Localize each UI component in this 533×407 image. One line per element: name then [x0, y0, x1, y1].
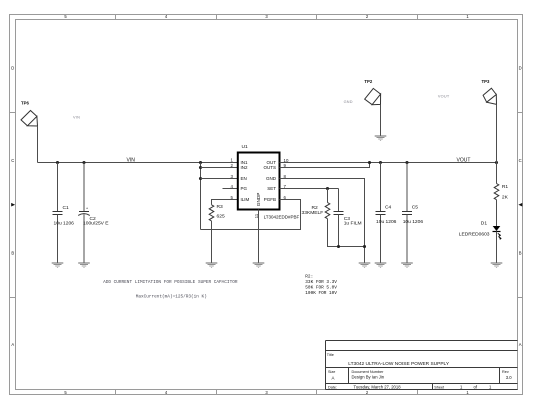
- ground below R3: [206, 263, 218, 268]
- svg-text:Document Number: Document Number: [352, 370, 385, 374]
- svg-text:100K FOR 10V: 100K FOR 10V: [305, 291, 337, 296]
- frame zone ticks bottom: [116, 390, 418, 395]
- svg-text:33K FOR 3.3V: 33K FOR 3.3V: [305, 280, 337, 285]
- wire R1 to D1: [496, 200, 498, 226]
- ground below C4: [375, 263, 387, 268]
- svg-text:A: A: [332, 375, 335, 380]
- svg-text:MaxCurrent(mA)=125/R3(in K): MaxCurrent(mA)=125/R3(in K): [136, 294, 207, 299]
- wire EN: [201, 178, 239, 180]
- wire VIN vertical branch: [200, 163, 202, 230]
- junction OUT/C4: [379, 161, 382, 164]
- test point TP6: [21, 101, 38, 127]
- svg-text:VIN: VIN: [73, 116, 80, 120]
- svg-text:R2:: R2:: [305, 274, 313, 279]
- wire PG stub nc: [223, 188, 239, 190]
- capacitor C5: [402, 163, 423, 263]
- svg-text:VOUT: VOUT: [457, 157, 471, 163]
- svg-text:PG: PG: [241, 186, 248, 191]
- svg-text:Date:: Date:: [328, 386, 337, 390]
- svg-text:Size: Size: [328, 370, 335, 374]
- wire GND pin down: [280, 179, 365, 263]
- svg-text:GND: GND: [344, 100, 353, 104]
- svg-text:D1: D1: [481, 220, 488, 226]
- svg-text:OUTS: OUTS: [263, 165, 276, 170]
- svg-text:3.0: 3.0: [506, 375, 512, 380]
- svg-text:R3: R3: [217, 204, 224, 210]
- svg-text:C4: C4: [385, 205, 392, 211]
- ground below TP2: [375, 136, 387, 141]
- capacitor C4: [376, 163, 397, 263]
- wire IN2: [201, 167, 239, 169]
- svg-text:D: D: [11, 65, 14, 70]
- svg-text:10u 1206: 10u 1206: [54, 220, 75, 226]
- ground below pin 11: [253, 263, 265, 268]
- svg-text:TP3: TP3: [482, 79, 490, 84]
- junction OUTS/OUT: [368, 161, 371, 164]
- resistor R3: [209, 204, 225, 221]
- frame zone numbers bottom: [64, 390, 469, 395]
- svg-text:A: A: [519, 342, 522, 347]
- svg-text:2K: 2K: [502, 195, 509, 201]
- svg-text:100u/25V E: 100u/25V E: [83, 221, 109, 227]
- wire D1 to ground: [496, 232, 498, 263]
- wire VIN rail: [38, 162, 239, 164]
- svg-text:TP6: TP6: [21, 101, 29, 106]
- ground below C2: [78, 263, 90, 268]
- svg-text:B: B: [11, 250, 14, 255]
- wire SET net: [280, 188, 339, 190]
- IC U1 LT3042EDD#PBF body: [238, 153, 280, 210]
- svg-text:A: A: [11, 342, 14, 347]
- svg-text:LEDRED0603: LEDRED0603: [459, 231, 490, 237]
- frame zone ticks right: [518, 113, 523, 298]
- wire TP3 to VOUT rail: [496, 104, 498, 162]
- frame zone ticks top: [116, 15, 418, 20]
- frame zone numbers top: [64, 14, 469, 19]
- svg-text:LT3042EDD#PBF: LT3042EDD#PBF: [264, 214, 300, 219]
- junction C3 bottom: [337, 245, 340, 248]
- junction GND net bottom: [363, 245, 366, 248]
- svg-text:PGFB: PGFB: [264, 197, 276, 202]
- pin 2 IN2: [231, 163, 248, 170]
- wire TP2 to ground: [380, 104, 382, 135]
- svg-text:TP2: TP2: [364, 79, 372, 84]
- title block text: [327, 353, 512, 389]
- svg-text:10u 1206: 10u 1206: [403, 219, 424, 225]
- svg-text:LT3042 ULTRA-LOW NOISE POWER S: LT3042 ULTRA-LOW NOISE POWER SUPPLY: [348, 361, 450, 367]
- svg-text:R1: R1: [502, 184, 509, 190]
- pin 3 EN: [231, 174, 247, 181]
- svg-text:Sheet: Sheet: [434, 386, 445, 390]
- pin 9 OUTS: [263, 163, 286, 170]
- pin 7 SET: [267, 184, 286, 191]
- pin 8 GND: [266, 174, 287, 181]
- wire TP6 down to VIN rail: [37, 126, 39, 163]
- svg-text:Design By Ian Jin: Design By Ian Jin: [352, 375, 385, 380]
- svg-text:GNDP: GNDP: [256, 193, 261, 207]
- capacitor C3: [334, 189, 362, 247]
- resistor R2: [302, 189, 365, 247]
- wire ILIM to R3: [212, 200, 239, 205]
- svg-text:VOUT: VOUT: [438, 94, 450, 98]
- pin 4 PG: [231, 184, 248, 191]
- wire R3 to ground: [211, 221, 213, 263]
- svg-text:625: 625: [217, 214, 225, 220]
- svg-text:B: B: [519, 250, 522, 255]
- wire OUTS join: [280, 163, 370, 168]
- wire OUT rail to VOUT: [280, 162, 497, 164]
- junction SET/R2: [326, 187, 329, 190]
- junction VIN/C1: [56, 161, 59, 164]
- frame zone ticks left: [10, 113, 16, 298]
- capacitor C1: [53, 163, 75, 263]
- ground below D1: [491, 263, 503, 268]
- svg-text:Rev: Rev: [502, 370, 509, 374]
- svg-text:IN2: IN2: [241, 165, 249, 170]
- ground GND net: [359, 263, 371, 268]
- junction EN: [199, 177, 202, 180]
- ground below C5: [401, 263, 413, 268]
- ground below C1: [52, 263, 64, 268]
- svg-text:1u FILM: 1u FILM: [344, 221, 362, 227]
- test point TP3: [482, 79, 497, 104]
- svg-text:Tuesday, March 27, 2018: Tuesday, March 27, 2018: [354, 385, 402, 390]
- svg-text:Title: Title: [327, 353, 334, 357]
- LED D1: [459, 220, 502, 240]
- svg-text:C5: C5: [412, 205, 419, 211]
- svg-text:SET: SET: [267, 186, 276, 191]
- pin 10 OUT: [267, 158, 289, 165]
- junction VIN vertical: [199, 161, 202, 164]
- svg-text:50K FOR 5.0V: 50K FOR 5.0V: [305, 286, 337, 291]
- svg-text:33KMELF: 33KMELF: [302, 210, 324, 216]
- svg-text:C: C: [11, 158, 14, 163]
- junction OUT/C5: [405, 161, 408, 164]
- svg-text:C1: C1: [63, 205, 70, 211]
- svg-text:VIN: VIN: [127, 157, 136, 163]
- frame zone letters left: [11, 65, 14, 347]
- title block lines: [326, 341, 518, 390]
- pin 6 PGFB: [264, 195, 287, 202]
- pin 11 GNDP rotated labels: [254, 193, 261, 219]
- resistor R1: [494, 184, 508, 201]
- pin 5 ILIM: [231, 195, 250, 202]
- junction VOUT/R1/TP3: [495, 161, 498, 164]
- svg-text:10u 1206: 10u 1206: [376, 219, 397, 225]
- svg-text:C: C: [519, 158, 522, 163]
- note R2 selection values: [305, 274, 337, 296]
- junction VIN/C2: [82, 161, 85, 164]
- wire PGFB loop under IC: [201, 200, 301, 230]
- wire pin 11 to ground: [258, 210, 260, 263]
- svg-text:ILIM: ILIM: [241, 197, 250, 202]
- svg-text:U1: U1: [242, 144, 249, 150]
- pin 1 IN1: [231, 158, 248, 165]
- capacitor C2 (electrolytic): [78, 163, 109, 263]
- svg-text:EN: EN: [241, 176, 247, 181]
- svg-text:D: D: [519, 65, 522, 70]
- test point TP2: [364, 79, 380, 105]
- wire VOUT to R1: [496, 163, 498, 184]
- frame zone letters right: [519, 65, 522, 347]
- svg-text:ADD CURRENT LIMITATION FOR POS: ADD CURRENT LIMITATION FOR POSSIBLE SUPE…: [103, 280, 238, 285]
- svg-text:GND: GND: [266, 176, 277, 181]
- junction IN2: [199, 166, 202, 169]
